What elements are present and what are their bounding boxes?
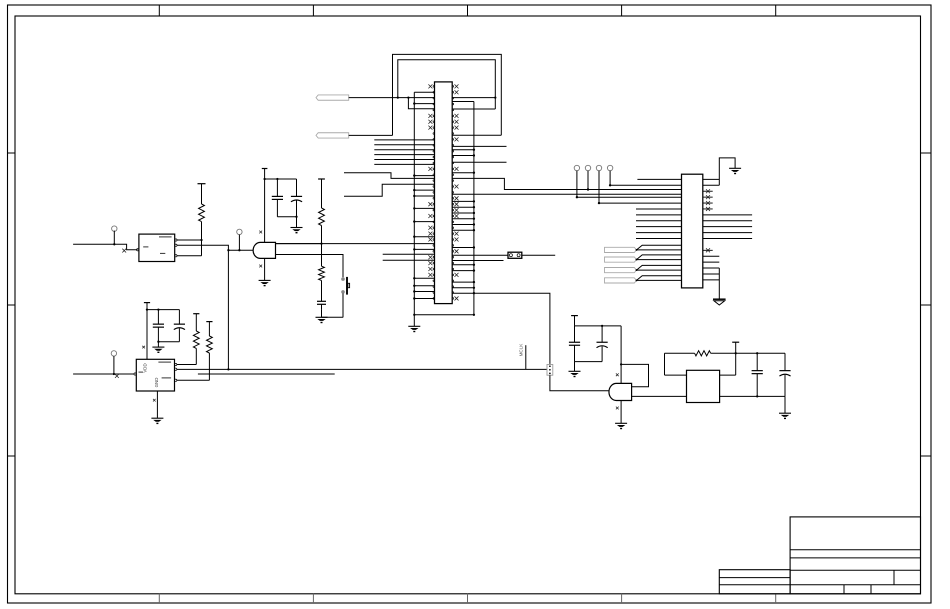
wire U2 right pin to stub W2 <box>452 161 506 163</box>
wire FB1 down to gate U4 input <box>550 375 612 391</box>
resistor R4 with power bar <box>206 322 212 381</box>
title block left box <box>719 570 790 594</box>
right pin bus vertical of U2 <box>473 102 475 315</box>
wire gate U1A output B down to switch S1 <box>276 255 344 278</box>
wire VCC to C7 C8 and gate U4 <box>575 325 622 327</box>
wire inner loop bottom to U2 right pin 5 <box>452 108 495 110</box>
U2 right bus short wires to pins <box>452 149 475 289</box>
wire stub U2 right pin 31 <box>452 260 503 262</box>
connector J1 no-connect X markers <box>706 189 710 252</box>
title block main box <box>790 517 920 594</box>
wire MCLK stem <box>525 345 527 369</box>
gate U4 pin labels <box>616 373 619 409</box>
U2 MCU body <box>435 82 453 304</box>
wire U2 RXD to connector J1 pin 4 <box>452 193 681 195</box>
gate U1A pin labels <box>259 231 262 268</box>
wire U2 TXD step to connector J1 pin 3 <box>452 178 681 189</box>
resistor R3 with power bar <box>193 314 199 365</box>
wire C7 C8 bottoms to ground <box>575 362 603 372</box>
U3 RTC body <box>134 359 177 391</box>
capacitor C7 <box>574 326 576 342</box>
wire cap bottoms to ground <box>277 216 297 228</box>
wire cap bottoms and ground drop <box>157 341 179 348</box>
resistor ladder R2 with power bar <box>318 179 325 244</box>
wire group P0 port to U2 left pins <box>374 140 434 165</box>
border zone ticks right edge <box>921 153 932 456</box>
wire J1 pins 1-2 to chassis ground <box>703 158 735 185</box>
left pin bus vertical of U2 to ground <box>413 92 415 326</box>
gate U4 body <box>609 383 632 400</box>
wire U3 pin 3 to R4 <box>177 379 209 381</box>
wire input net to U1 left pin <box>73 244 138 250</box>
wire J1 pins 16-18 to open ground <box>703 268 720 299</box>
wire U1 pin A to R1 <box>177 239 202 241</box>
capacitor C6 polarized <box>779 353 790 396</box>
wire U2 left bus top corner to pin <box>414 91 434 93</box>
wire U1 pin B to gate U1A input with step <box>177 245 254 250</box>
wire TP to connector J1 pin 2 <box>610 184 681 186</box>
junction dot bus and vertical <box>227 368 229 370</box>
wire outer loop bottom to U2 right pin 9 <box>452 134 501 136</box>
wire VDD to caps C3 C4 <box>147 309 179 311</box>
ground under C3 <box>152 346 164 348</box>
U1 internal pin name marks <box>143 237 171 254</box>
U3 ground pin <box>151 391 163 423</box>
wire U2 bottom right to ferrite FB1 <box>452 293 550 364</box>
power terminal above C7 <box>571 316 578 326</box>
ground symbol at J1 shield <box>729 167 741 169</box>
capacitor C1 <box>272 178 283 217</box>
wire S1 bottom to ground node <box>342 294 344 318</box>
capacitor C9 at ladder bottom <box>317 296 326 317</box>
net flags into J1 lower pins <box>605 245 682 283</box>
ground under C7 <box>569 370 581 372</box>
wire U3 clock out long bus to FB1 <box>177 368 547 370</box>
pin label X at U3 input <box>115 374 119 378</box>
U3 top pin number label <box>142 346 145 349</box>
wire stubs J1 pins 14-15 <box>703 256 720 262</box>
svg-text:GND: GND <box>154 378 159 388</box>
wire stub to U2 pin 31 <box>383 259 435 261</box>
junction dots near U1 <box>200 239 240 252</box>
wire pill XTAL2 to U2 / loop bottom <box>349 134 393 136</box>
power terminal at crystal output <box>720 342 740 375</box>
capacitor C4 polarized <box>178 310 180 325</box>
gate U4 ground pin <box>615 401 627 429</box>
border zone ticks bottom edge <box>159 594 775 603</box>
junction dots on loop wires <box>397 96 497 98</box>
open triangle ground under J1 <box>713 299 726 305</box>
wire U1A output to U2 clock pin <box>276 243 435 245</box>
test point TP2 <box>237 229 242 250</box>
wire bundle to connector J1 pins 6-11 <box>636 209 682 239</box>
wire inner loop around U2 top <box>398 60 496 109</box>
gate U1A ground pin <box>259 258 271 285</box>
wire pill XTAL1 to U2 <box>349 97 435 99</box>
border zone ticks left edge <box>8 153 16 456</box>
U3 internal pin marks <box>139 362 172 378</box>
U2 left bus short wires to pins <box>413 102 434 299</box>
wire VCC to decoupling caps C1 C2 <box>265 178 297 180</box>
junction dot R2 to clock wire <box>320 242 322 244</box>
resistor R1 with power bar <box>198 184 206 256</box>
ground under C6 <box>779 396 791 418</box>
resistor R6 lower <box>321 244 323 267</box>
svg-text:VDD: VDD <box>143 363 148 372</box>
wire fuse row from U2 <box>452 254 508 256</box>
wire gate U1A output A <box>276 243 322 245</box>
net label pill XTAL2 <box>316 133 349 138</box>
crystal X1 body <box>687 370 720 402</box>
wire U1 pin C to R1 bottom <box>177 255 202 257</box>
U2 pin clip circles <box>433 86 454 300</box>
test points TP3 TP4 TP5 TP6 <box>574 165 613 204</box>
capacitor C8 polarized <box>597 325 608 362</box>
power terminal above U3 <box>144 303 150 360</box>
ground under C2 <box>291 227 303 229</box>
border zone ticks top edge <box>159 5 775 16</box>
wire U2 right bus top corner to pin <box>452 101 474 103</box>
wire feedback loop gate U4 <box>621 364 648 386</box>
U1 oscillator body <box>137 234 178 261</box>
power terminal above gate U1A <box>262 169 268 243</box>
connector J1 body <box>682 174 703 288</box>
wire Z-bend into U2 pin 17 <box>344 173 435 179</box>
capacitor C5 <box>752 352 763 396</box>
net label pill XTAL1 <box>316 95 349 100</box>
svg-text:MCLK: MCLK <box>518 343 523 357</box>
capacitor C2 polarized <box>296 179 298 196</box>
capacitor C3 <box>153 308 164 341</box>
wire right of U2 row3 to inner loop <box>452 97 495 99</box>
wire linking U2 left and right pin buses below body <box>413 314 475 316</box>
resistor R5 across crystal <box>665 351 786 375</box>
wire VCC down to gate U4 top pin <box>620 326 622 384</box>
wire TP to connector J1 pin 6 <box>599 202 682 204</box>
fuse F1 <box>508 252 522 258</box>
wire stub to connector J1 pin 1 <box>637 178 681 180</box>
wire U3 pin 1 to R3 <box>177 364 196 366</box>
test point TP1 <box>112 226 117 246</box>
wire Z-bend into U2 pin 18 <box>344 184 435 196</box>
ground under U2 left bus <box>408 325 420 327</box>
wire input net 2 to U3 left pin <box>73 373 134 375</box>
wire stub to U2 pin 30 <box>383 253 435 255</box>
connector J1 right stub pins <box>703 191 713 250</box>
wire vertical from U1 output net down to lower bus <box>227 250 229 369</box>
wires J1 pins 7-11 out right <box>703 215 752 239</box>
wire stub second row <box>198 373 335 375</box>
wire TP to connector J1 pin 5 <box>577 196 682 198</box>
gate U1A body <box>253 242 275 258</box>
wire U2 right pin to stub W1 <box>452 145 506 147</box>
ground under C9 <box>316 316 328 318</box>
wire gate U4 output to crystal X1 <box>632 395 687 397</box>
U2 no-connect X markers on unused pins <box>428 84 458 300</box>
wire outer loop around U2 top <box>393 54 502 135</box>
ferrite bead FB1 <box>547 364 553 375</box>
wire after fuse F1 <box>522 254 555 256</box>
wire switch leg to ground node <box>322 316 344 318</box>
wire step from OSC wire down to U2 pin 5 <box>408 98 434 109</box>
wire crystal X1 output to caps and ground <box>720 395 785 397</box>
push button S1 <box>341 277 349 295</box>
pin label X at U1 input <box>122 249 126 253</box>
test point TP7 <box>111 351 116 375</box>
